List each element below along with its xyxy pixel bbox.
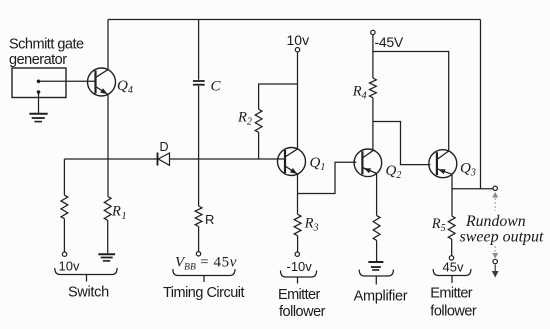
wire: Q3 emitter to output node: [452, 174, 493, 188]
ground below R1: [98, 254, 115, 261]
svg-text:Timing Circuit: Timing Circuit: [163, 285, 245, 301]
svg-text:Amplifier: Amplifier: [354, 289, 408, 305]
diode D: [158, 153, 170, 166]
svg-text:Q3: Q3: [460, 161, 476, 179]
wire: 10v down to Q1 collector: [297, 52, 299, 149]
resistor R: [195, 206, 202, 227]
wire: Q2 collector branch to Q3 base: [373, 122, 431, 165]
ground below amplifier resistor: [368, 262, 383, 270]
capacitor C: [193, 81, 205, 85]
svg-text:Emitter: Emitter: [430, 286, 472, 302]
svg-text:10v: 10v: [287, 32, 310, 48]
svg-text:Schmitt gate: Schmitt gate: [9, 37, 84, 53]
resistor R2: [255, 109, 262, 132]
brace: Emitter follower (left): [281, 271, 317, 284]
svg-text:R3: R3: [304, 216, 319, 234]
wire: timing node horizontal (diode wire): [64, 158, 285, 160]
terminal: -10v: [295, 252, 299, 256]
wire: R5 branch: [451, 189, 453, 256]
transistor Q4: [88, 68, 116, 96]
wire: R2 branch from 10v line down to timing wire: [259, 84, 298, 159]
wire: capacitor branch from rail: [198, 20, 200, 80]
svg-text:sweep output: sweep output: [460, 229, 545, 246]
svg-text:-45V: -45V: [375, 34, 404, 50]
arrow: output span upper (dashed, up arrowhead): [492, 192, 498, 211]
resistor (switch branch, unlabeled): [61, 195, 68, 218]
wire: -45V branch to Q3 collector: [373, 52, 449, 152]
resistor R5: [448, 216, 455, 239]
terminal: output top: [493, 186, 497, 190]
svg-text:Q2: Q2: [386, 163, 402, 181]
resistor R4: [370, 78, 377, 98]
wire: right drop from rail to output node: [480, 20, 482, 189]
terminal: output bottom: [493, 259, 497, 263]
svg-text:R2: R2: [237, 110, 252, 128]
arrow: output direction (solid, down): [492, 265, 499, 278]
resistor R1: [104, 197, 111, 221]
ground below Schmitt box: [29, 114, 47, 122]
wire: Q4 collector up to rail: [107, 20, 109, 70]
terminal: 10v switch: [62, 252, 66, 256]
wire: Q1 emitter junction to Q2 base: [298, 162, 357, 193]
brace: Emitter follower (right): [433, 269, 471, 283]
wire: Q4 emitter down through timing wire to R1: [107, 94, 109, 253]
terminal: -45V supply: [371, 30, 375, 34]
terminal: VBB: [196, 252, 200, 256]
svg-text:Q1: Q1: [310, 155, 326, 173]
node: box output dot: [37, 80, 41, 84]
transistor Q3: [429, 150, 457, 178]
svg-text:generator: generator: [9, 52, 67, 68]
svg-text:follower: follower: [430, 304, 477, 320]
svg-text:VBB = 45v: VBB = 45v: [175, 255, 237, 273]
wire: -45V down through R4 to Q2 collector: [372, 35, 374, 151]
svg-text:R1: R1: [111, 204, 127, 222]
terminal: 10v supply (top): [295, 48, 299, 52]
svg-text:-10v: -10v: [287, 259, 313, 274]
Schmitt gate generator box: [12, 68, 66, 98]
svg-text:D: D: [159, 140, 168, 154]
svg-text:Q4: Q4: [117, 78, 133, 96]
svg-text:Rundown: Rundown: [465, 213, 526, 230]
svg-text:C: C: [211, 79, 222, 95]
transistor Q2: [354, 149, 382, 177]
svg-text:Switch: Switch: [68, 284, 109, 300]
svg-text:10v: 10v: [59, 259, 80, 274]
brace: Switch: [55, 268, 117, 282]
wire: Schmitt box output to Q4 base: [39, 80, 96, 82]
wire: Q2 emitter down to amplifier resistor: [376, 173, 378, 261]
arrow: output span lower (dashed, down arrowhead): [492, 246, 498, 259]
svg-text:R: R: [205, 212, 214, 227]
node: box lower dot: [37, 90, 41, 94]
terminal: 45v: [449, 256, 453, 260]
resistor R3: [294, 214, 301, 235]
wire: capacitor down through timing wire to R: [198, 86, 200, 252]
brace: Timing Circuit: [173, 269, 235, 282]
brace: Amplifier: [359, 270, 393, 285]
wire: left branch down to switch resistor and 10v: [63, 159, 65, 252]
resistor (amplifier emitter, unlabeled): [373, 216, 380, 241]
svg-text:follower: follower: [279, 304, 326, 320]
svg-text:R5: R5: [431, 216, 446, 234]
wire: top supply rail: [108, 19, 481, 21]
svg-text:Emitter: Emitter: [278, 287, 320, 303]
wire: Q1 emitter down to R3: [297, 174, 299, 252]
transistor Q1: [278, 148, 306, 176]
svg-text:R4: R4: [352, 83, 367, 101]
wire: box lower dot to ground: [38, 92, 40, 114]
svg-text:45v: 45v: [443, 260, 464, 275]
